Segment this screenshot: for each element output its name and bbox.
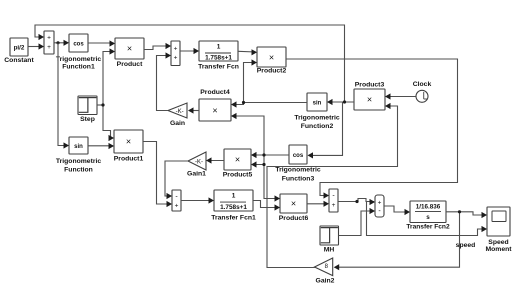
svg-text:speed: speed — [456, 242, 476, 249]
svg-text:Trigonometric: Trigonometric — [56, 56, 102, 63]
svg-text:×: × — [291, 199, 296, 209]
svg-text:Product5: Product5 — [223, 172, 253, 179]
svg-text:×: × — [367, 95, 372, 105]
svg-text:Product4: Product4 — [200, 89, 230, 96]
svg-text:1.758s+1: 1.758s+1 — [205, 54, 232, 61]
svg-text:1/16.836: 1/16.836 — [416, 203, 441, 210]
svg-text:s: s — [426, 214, 430, 221]
svg-text:Constant: Constant — [4, 57, 34, 64]
svg-text:1: 1 — [217, 44, 221, 51]
svg-text:Function3: Function3 — [282, 176, 315, 183]
svg-text:-K-: -K- — [195, 159, 203, 165]
svg-text:+: + — [47, 35, 51, 42]
svg-text:Product6: Product6 — [279, 215, 309, 222]
svg-text:Transfer Fcn2: Transfer Fcn2 — [406, 224, 450, 231]
svg-text:Speed: Speed — [488, 239, 508, 246]
svg-text:Transfer Fcn1: Transfer Fcn1 — [211, 215, 256, 222]
svg-text:cos: cos — [73, 42, 84, 48]
svg-text:+: + — [175, 203, 179, 210]
svg-text:Product2: Product2 — [257, 68, 287, 75]
svg-text:Transfer Fcn: Transfer Fcn — [198, 63, 239, 70]
svg-text:Product1: Product1 — [114, 156, 144, 163]
svg-text:Gain1: Gain1 — [187, 171, 206, 178]
svg-text:×: × — [235, 155, 240, 165]
svg-text:Step: Step — [80, 116, 95, 123]
svg-text:1.758s+1: 1.758s+1 — [220, 204, 247, 211]
svg-text:+: + — [378, 200, 382, 207]
svg-text:×: × — [126, 137, 131, 147]
svg-text:Function1: Function1 — [62, 64, 95, 71]
svg-text:cos: cos — [293, 153, 304, 159]
svg-text:+: + — [174, 45, 178, 52]
svg-text:+: + — [174, 55, 178, 62]
svg-text:pi/2: pi/2 — [14, 45, 25, 52]
svg-text:Trigonometric: Trigonometric — [275, 167, 321, 174]
svg-text:sin: sin — [74, 144, 83, 150]
svg-text:Gain: Gain — [170, 120, 185, 127]
svg-text:+: + — [332, 202, 336, 209]
svg-text:MH: MH — [324, 247, 335, 254]
svg-text:1: 1 — [232, 193, 236, 200]
svg-text:Moment: Moment — [485, 246, 512, 253]
svg-text:Product3: Product3 — [355, 82, 385, 89]
svg-text:Product: Product — [117, 61, 143, 68]
svg-text:Function: Function — [64, 167, 93, 174]
svg-text:×: × — [269, 53, 274, 63]
svg-text:-K-: -K- — [176, 109, 184, 115]
svg-text:Clock: Clock — [413, 81, 432, 88]
svg-text:Function2: Function2 — [301, 123, 334, 130]
svg-text:×: × — [127, 44, 132, 54]
svg-text:Gain2: Gain2 — [316, 278, 335, 285]
svg-text:×: × — [212, 106, 217, 116]
svg-text:Trigonometric: Trigonometric — [294, 115, 340, 122]
svg-text:Trigonometric: Trigonometric — [56, 158, 102, 165]
svg-text:sin: sin — [313, 101, 322, 107]
svg-text:+: + — [47, 44, 51, 51]
